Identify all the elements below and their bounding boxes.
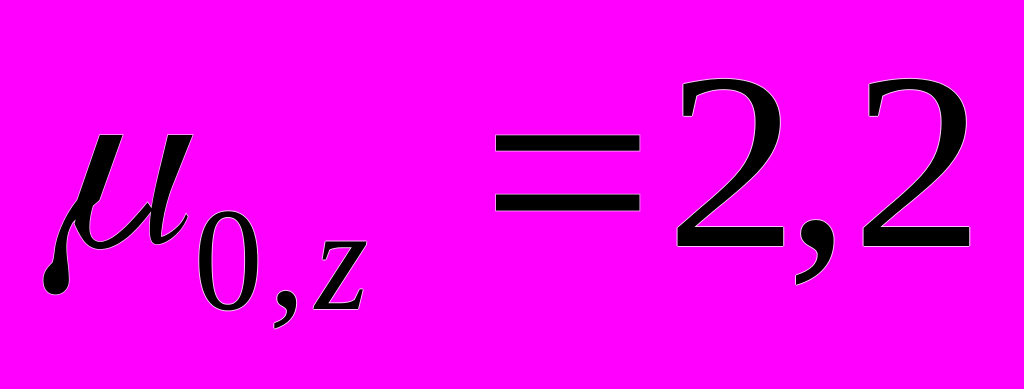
- mu halo (anti-alias white fringe): [43, 135, 192, 295]
- value first digit 2: [666, 35, 798, 288]
- mu left stem and descender with teardrop terminal: [43, 135, 122, 295]
- subscript z (italic): [315, 186, 368, 333]
- mu right stem with exit tail: [150, 135, 193, 244]
- subscript 0: [194, 186, 263, 333]
- equals halo: [496, 135, 640, 210]
- equals bottom bar: [496, 195, 640, 211]
- value comma: [786, 35, 849, 288]
- value second digit 2: [852, 35, 984, 288]
- subscript comma: [269, 183, 306, 330]
- mu bowl connector (u-shaped hairline): [75, 203, 153, 250]
- equals top bar: [496, 135, 640, 150]
